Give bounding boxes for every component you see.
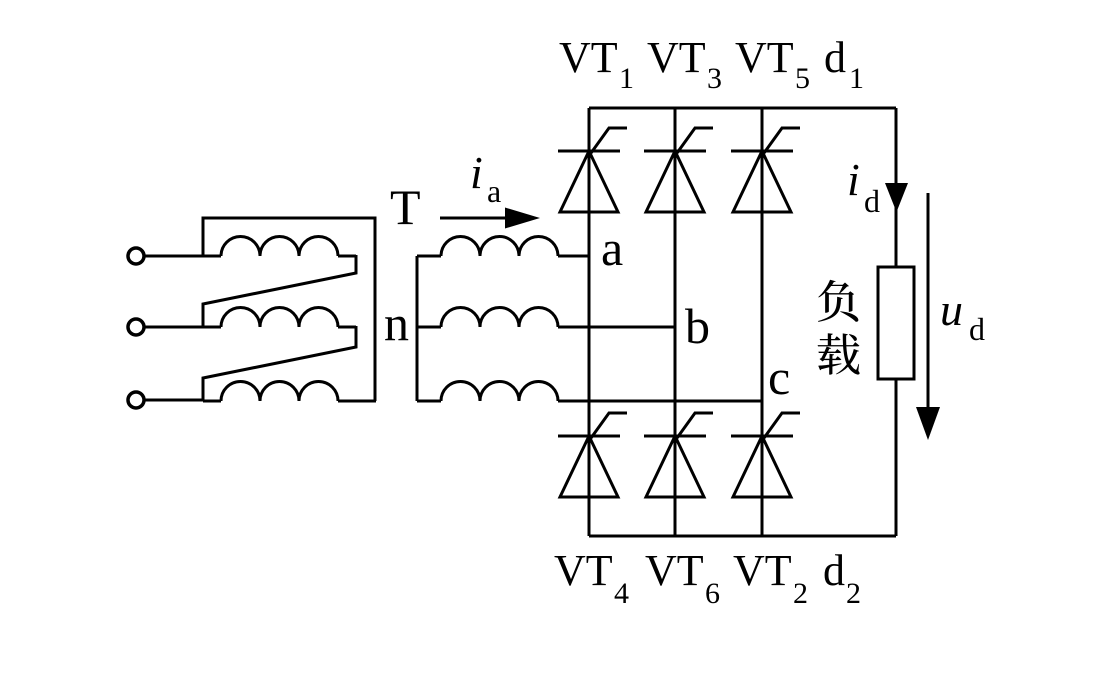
- thyristor VT2: [731, 413, 800, 497]
- thyristor VT6: [644, 413, 713, 497]
- svg-text:d: d: [824, 33, 846, 82]
- terminal B: [128, 319, 144, 335]
- svg-text:d: d: [864, 183, 880, 219]
- label ia: [470, 147, 501, 209]
- svg-text:a: a: [601, 220, 623, 276]
- wire bridge leg c: [761, 108, 764, 536]
- svg-text:VT: VT: [735, 33, 794, 82]
- label ud: [940, 284, 985, 347]
- thyristor VT5: [731, 128, 800, 212]
- wire bridge leg a: [588, 108, 591, 536]
- label VT3: [647, 33, 722, 95]
- svg-text:VT: VT: [645, 546, 704, 595]
- label VT2: [733, 546, 808, 610]
- wire bridge leg b: [674, 108, 677, 536]
- svg-text:b: b: [685, 298, 710, 354]
- label load 负: [818, 280, 858, 322]
- primary winding P3: [203, 382, 376, 402]
- wire phase b: [558, 326, 675, 329]
- svg-text:u: u: [940, 284, 963, 335]
- svg-text:VT: VT: [733, 546, 792, 595]
- svg-text:c: c: [768, 349, 790, 405]
- wire load branch: [895, 108, 898, 536]
- label id: [847, 154, 880, 219]
- svg-text:VT: VT: [554, 546, 613, 595]
- wire phase a: [558, 255, 589, 258]
- svg-text:VT: VT: [559, 33, 618, 82]
- label VT5: [735, 33, 810, 95]
- terminal C: [128, 392, 144, 408]
- svg-text:T: T: [390, 179, 421, 235]
- wire d1 positive rail: [589, 107, 896, 110]
- wire terminal B to primary: [144, 326, 203, 329]
- wire delta link P1 to P2: [203, 255, 356, 327]
- terminal A: [128, 248, 144, 264]
- primary winding P2: [203, 308, 356, 328]
- svg-text:d: d: [823, 546, 845, 595]
- wire d2 negative rail: [589, 535, 896, 538]
- label d1: [824, 33, 864, 95]
- wire primary top rail: [203, 218, 375, 401]
- wire phase c: [558, 400, 762, 403]
- svg-text:2: 2: [793, 577, 808, 610]
- svg-text:VT: VT: [647, 33, 706, 82]
- label VT1: [559, 33, 634, 95]
- svg-text:6: 6: [705, 577, 720, 610]
- current arrow ia: [440, 208, 540, 229]
- current arrow id on load branch: [885, 183, 908, 212]
- thyristor VT3: [644, 128, 713, 212]
- thyristor VT1: [558, 128, 627, 212]
- svg-text:n: n: [384, 295, 409, 351]
- svg-text:5: 5: [795, 62, 810, 95]
- svg-text:2: 2: [846, 577, 861, 610]
- secondary winding Sa: [417, 237, 558, 257]
- svg-text:1: 1: [619, 62, 634, 95]
- voltage arrow ud: [916, 193, 940, 440]
- wire terminal C to primary: [144, 399, 203, 402]
- wire terminal A to primary: [144, 255, 203, 258]
- secondary winding Sc: [417, 382, 558, 402]
- secondary winding Sb: [417, 308, 558, 328]
- svg-text:d: d: [969, 311, 985, 347]
- label d2: [823, 546, 861, 610]
- wire delta link P2 to P3: [203, 326, 356, 400]
- thyristor VT4: [558, 413, 627, 497]
- node n secondary neutral bus: [416, 256, 419, 401]
- label VT6: [645, 546, 720, 610]
- svg-text:1: 1: [849, 62, 864, 95]
- svg-text:i: i: [470, 147, 483, 198]
- svg-text:3: 3: [707, 62, 722, 95]
- label VT4: [554, 546, 629, 610]
- svg-text:4: 4: [614, 577, 629, 610]
- svg-text:i: i: [847, 154, 860, 205]
- svg-text:a: a: [487, 173, 501, 209]
- primary winding P1: [203, 237, 356, 257]
- label load 载: [818, 333, 860, 374]
- load resistor: [878, 267, 914, 379]
